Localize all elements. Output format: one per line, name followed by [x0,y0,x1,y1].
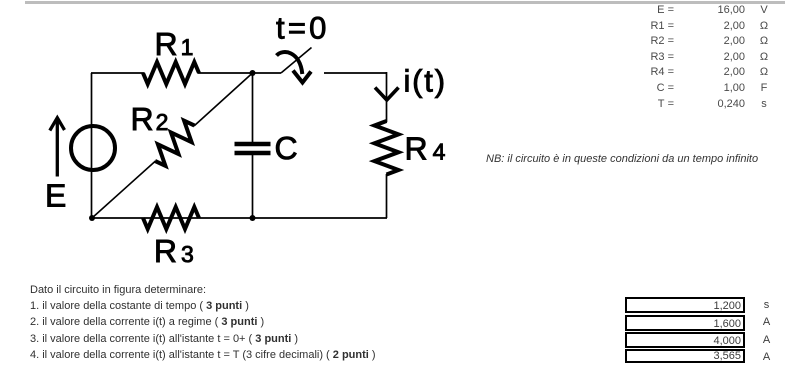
questions list [30,282,376,362]
parameter table labels column [614,3,674,112]
resistor R2 [155,121,194,166]
capacitor wire upper [252,73,254,142]
wire top left segment [91,72,144,74]
wire right vertical lower [386,174,388,218]
answer unit 2 [756,316,778,328]
wire R2 diagonal upper [194,73,253,126]
svg-text:E: E [45,178,66,214]
parameter table values column [676,3,745,112]
answer unit 4 [756,351,778,363]
svg-text:t=0: t=0 [276,11,330,46]
resistor R4 [375,121,399,175]
answer box 1 [625,297,745,313]
switch closing arrow arc [277,52,312,82]
wire top right segment after switch [324,72,387,74]
answer box 2 [625,315,745,331]
node A (top middle junction) [250,70,256,76]
NB note [486,153,758,165]
wire right vertical upper [386,72,388,122]
node C (bottom left junction) [89,215,95,221]
answer unit 3 [756,334,778,346]
answer unit 1 [756,299,778,311]
resistor R1 [143,62,199,84]
switch SW1 blade (open, t=0) [281,48,312,74]
svg-text:R1: R1 [155,26,194,62]
capacitor C plates [235,144,271,153]
answer box 4 [625,349,745,364]
svg-text:R2: R2 [131,101,169,137]
source E circle U1 [71,126,115,170]
svg-text:R4: R4 [405,131,446,167]
circuit schematic SVG [0,0,470,280]
wire left vertical [91,73,93,218]
answer box 3 [625,332,745,348]
resistor R3 [143,207,199,229]
wire top mid segment [198,72,281,74]
wire bottom left segment [91,217,199,219]
svg-text:i(t): i(t) [404,64,447,99]
svg-text:C: C [275,130,298,166]
wire bottom mid segment [199,217,253,219]
node B (bottom middle junction) [250,215,256,221]
capacitor wire lower [252,155,254,218]
parameter table units column [753,3,775,112]
svg-text:R3: R3 [154,233,194,269]
wire R2 diagonal lower [92,161,156,218]
grey top rule [25,1,785,4]
E reference arrow [50,118,65,177]
current arrow i(t) [375,88,399,101]
wire bottom right segment [252,217,387,219]
